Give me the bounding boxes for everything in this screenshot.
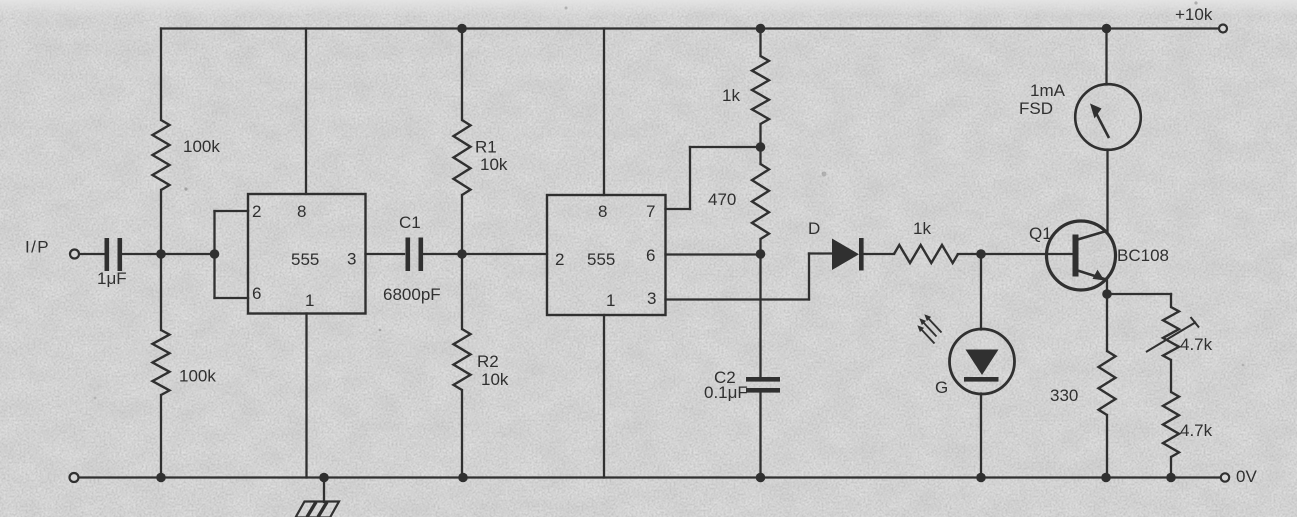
- svg-text:4.7k: 4.7k: [1180, 421, 1213, 440]
- svg-text:D: D: [808, 219, 820, 238]
- svg-text:1mA: 1mA: [1030, 81, 1066, 100]
- svg-text:1k: 1k: [722, 86, 740, 105]
- svg-text:3: 3: [647, 289, 656, 308]
- svg-text:2: 2: [555, 250, 564, 269]
- svg-text:4.7k: 4.7k: [1180, 335, 1213, 354]
- svg-text:100k: 100k: [179, 367, 216, 386]
- svg-text:1: 1: [305, 291, 314, 310]
- svg-text:G: G: [935, 378, 948, 397]
- svg-text:3: 3: [347, 250, 356, 269]
- svg-text:C1: C1: [399, 213, 421, 232]
- svg-text:R1: R1: [475, 138, 497, 157]
- svg-text:6: 6: [646, 246, 655, 265]
- svg-text:1: 1: [606, 291, 615, 310]
- svg-text:555: 555: [587, 250, 615, 269]
- svg-text:0.1μF: 0.1μF: [704, 383, 748, 402]
- svg-text:FSD: FSD: [1019, 99, 1053, 118]
- svg-text:100k: 100k: [183, 137, 220, 156]
- svg-text:330: 330: [1050, 386, 1078, 405]
- svg-text:6: 6: [252, 284, 261, 303]
- svg-text:2: 2: [252, 202, 261, 221]
- svg-text:1k: 1k: [913, 219, 931, 238]
- svg-text:Q1: Q1: [1029, 224, 1052, 243]
- svg-text:470: 470: [708, 190, 736, 209]
- svg-text:R2: R2: [477, 352, 499, 371]
- svg-text:BC108: BC108: [1117, 246, 1169, 265]
- svg-text:7: 7: [646, 202, 655, 221]
- svg-text:8: 8: [598, 202, 607, 221]
- svg-text:1μF: 1μF: [97, 269, 127, 288]
- svg-text:I/P: I/P: [25, 238, 50, 257]
- svg-text:10k: 10k: [480, 155, 508, 174]
- svg-text:10k: 10k: [481, 370, 509, 389]
- svg-text:6800pF: 6800pF: [383, 285, 441, 304]
- svg-text:+10k: +10k: [1175, 5, 1213, 24]
- svg-text:555: 555: [291, 250, 319, 269]
- svg-text:0V: 0V: [1236, 467, 1257, 486]
- svg-text:8: 8: [297, 202, 306, 221]
